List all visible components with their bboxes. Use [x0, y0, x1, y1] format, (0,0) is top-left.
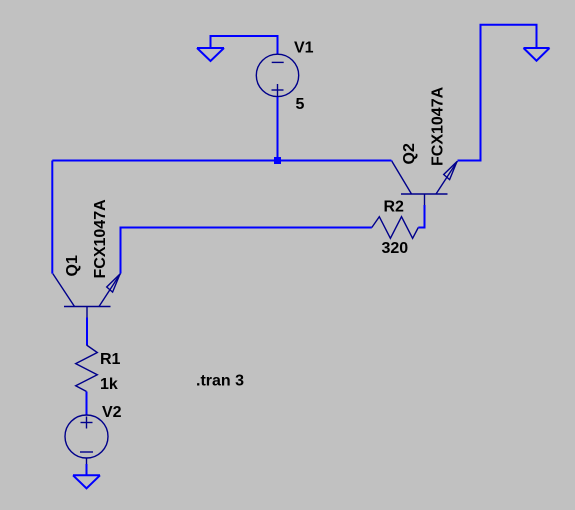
- wire Q2 emitter to top-right ground: [458, 25, 537, 161]
- svg-text:320: 320: [382, 240, 409, 257]
- voltage source V1: [256, 54, 298, 96]
- svg-text:.tran 3: .tran 3: [196, 373, 244, 390]
- wire R2 right to Q2 base: [418, 205, 424, 228]
- svg-text:R1: R1: [100, 351, 121, 368]
- wire V2 bottom to ground: [86, 464, 88, 475]
- wire R1 bottom to V2 top: [86, 392, 88, 416]
- wire Q1 base down to R1: [86, 318, 88, 346]
- svg-text:V1: V1: [294, 40, 314, 57]
- wire Q2 collector to rail: [390, 160, 392, 163]
- svg-text:Q2: Q2: [401, 143, 418, 164]
- ground GND2 top-right: [524, 48, 550, 61]
- resistor R2: [372, 217, 419, 239]
- resistor R1: [76, 345, 98, 392]
- wire left vertical to Q1 collector: [51, 161, 53, 274]
- svg-text:1k: 1k: [100, 376, 118, 393]
- transistor Q1 FCX1047A (PNP): [53, 274, 121, 318]
- wire top-left horizontal from ground to V1 top: [211, 36, 278, 54]
- voltage source V2: [65, 415, 108, 464]
- transistor Q2 FCX1047A (PNP): [392, 161, 458, 205]
- svg-text:V2: V2: [102, 404, 122, 421]
- svg-text:FCX1047A: FCX1047A: [430, 86, 447, 166]
- ground GND1 top-left: [197, 48, 224, 61]
- svg-text:5: 5: [296, 96, 305, 113]
- svg-text:R2: R2: [384, 199, 405, 216]
- main rail wire: [52, 160, 391, 162]
- wire Q1 emitter up and right to R2: [121, 228, 372, 274]
- svg-text:Q1: Q1: [64, 255, 81, 276]
- wire V1 bottom to rail: [277, 97, 279, 161]
- svg-text:FCX1047A: FCX1047A: [92, 199, 109, 279]
- junction node dot: [274, 157, 281, 164]
- ground GND3 bottom: [73, 475, 100, 488]
